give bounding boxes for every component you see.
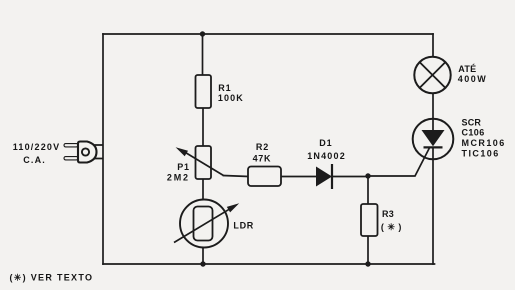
svg-text:P1: P1 — [177, 162, 190, 172]
svg-text:47K: 47K — [253, 153, 272, 163]
node junction top rail / R1 — [200, 31, 205, 36]
svg-text:R1: R1 — [218, 83, 231, 93]
wire R3 to bottom rail — [367, 236, 369, 264]
wire LDR to bottom rail — [202, 241, 204, 265]
wire D1 to node A — [332, 176, 368, 178]
svg-text:SCR: SCR — [462, 117, 482, 127]
wire SCR cathode down to bottom rail — [432, 148, 434, 265]
wire node A to R3 — [367, 176, 369, 204]
lamp ATÉ 400W — [414, 57, 487, 93]
AC plug 110/220V — [13, 142, 104, 165]
wire lamp to SCR anode — [432, 93, 434, 130]
svg-text:110/220V: 110/220V — [13, 142, 61, 152]
node A junction D1 / R3 / gate — [365, 173, 370, 178]
wire top rail to R1 — [202, 34, 204, 75]
wire node A to SCR gate — [368, 148, 430, 176]
wire top rail — [103, 33, 433, 35]
svg-text:TIC106: TIC106 — [462, 148, 500, 158]
potentiometer P1 — [167, 146, 224, 183]
svg-text:ATÉ: ATÉ — [458, 64, 476, 74]
wire P1 to LDR — [202, 179, 204, 207]
wire R2 to D1 — [281, 176, 316, 178]
wire R1 to P1 — [202, 108, 204, 146]
svg-text:C106: C106 — [462, 128, 485, 138]
svg-text:D1: D1 — [319, 138, 332, 148]
wire top-right drop to lamp — [432, 34, 434, 57]
diode D1 — [307, 138, 346, 189]
LDR — [174, 200, 254, 248]
svg-text:(✳) VER TEXTO: (✳) VER TEXTO — [10, 272, 94, 282]
svg-text:1N4002: 1N4002 — [307, 151, 346, 161]
svg-text:400W: 400W — [458, 74, 488, 84]
resistor R2 — [248, 142, 281, 186]
svg-text:R2: R2 — [256, 142, 269, 152]
svg-text:2M2: 2M2 — [167, 173, 190, 183]
resistor R3 — [361, 204, 402, 236]
svg-text:LDR: LDR — [233, 220, 254, 230]
svg-text:( ✳ ): ( ✳ ) — [381, 222, 402, 232]
wire P1 wiper to R2 — [224, 176, 249, 177]
svg-text:MCR106: MCR106 — [462, 138, 506, 148]
resistor R1 — [196, 75, 244, 108]
wire bottom rail — [103, 263, 435, 265]
svg-text:100K: 100K — [218, 93, 244, 103]
svg-text:C.A.: C.A. — [23, 155, 46, 165]
node junction R3 / bottom rail — [365, 261, 370, 266]
SCR U1 — [413, 117, 506, 159]
node junction LDR / bottom rail — [200, 261, 205, 266]
wire left rail — [102, 34, 104, 264]
svg-text:R3: R3 — [382, 209, 394, 219]
